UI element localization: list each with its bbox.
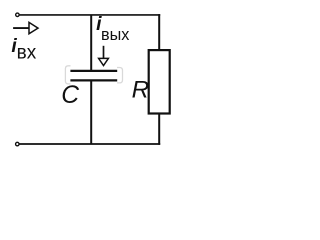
svg-text:C: C — [61, 82, 79, 109]
svg-text:R: R — [132, 76, 150, 103]
svg-text:вх: вх — [17, 42, 37, 63]
svg-text:вых: вых — [101, 26, 129, 44]
